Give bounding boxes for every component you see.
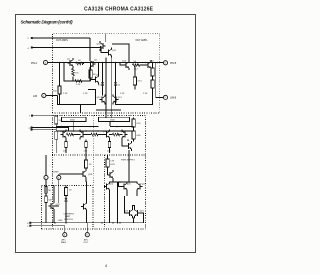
svg-text:4: 4 [105,263,108,268]
node dots rail [59,62,61,64]
terminal PIN A [43,60,47,64]
transistor QC1 [100,41,106,51]
svg-text:2: 2 [29,128,31,130]
node dots band bus [73,130,75,132]
svg-text:LIM: LIM [33,95,37,98]
wire band bus y131 [56,130,131,132]
wire Q5 collector elbow [112,44,129,60]
wire term1 down [45,180,47,192]
terminal LIM left [42,93,46,97]
svg-text:Q11: Q11 [112,50,117,52]
svg-text:OUT: OUT [84,242,89,244]
svg-text:1.2K: 1.2K [63,93,68,95]
svg-text:Q26: Q26 [127,184,132,186]
resistor R9 box [132,119,135,127]
svg-text:1 MF: 1 MF [58,220,64,222]
transistor Q9 [104,130,110,140]
svg-text:5K: 5K [78,60,81,62]
wire Q20 Q21 link [125,196,144,223]
svg-text:2K: 2K [69,190,72,192]
wire Q3 base [90,80,93,82]
wire input 2a [32,128,69,132]
wire Q15 leads [53,186,59,223]
wire R8 bottom [55,124,57,130]
wire R13 top [65,186,67,188]
svg-text:1.2K: 1.2K [143,93,148,95]
svg-text:Q2: Q2 [94,60,98,62]
wire diode branch B [115,63,117,96]
transistor Q3 [93,75,99,85]
svg-text:LIM B: LIM B [170,97,177,100]
svg-text:1: 1 [27,226,29,228]
svg-text:130: 130 [63,151,67,153]
wire input 2b [32,130,56,131]
wire input 7 [33,115,57,117]
svg-text:Q23: Q23 [140,211,145,213]
svg-text:5K: 5K [48,190,51,192]
wire Q3 collector up [98,63,100,75]
diode D2 [114,82,117,85]
node dots BR bus [119,181,121,183]
svg-text:Q29: Q29 [56,204,61,206]
transistor Q17 [104,182,110,192]
resistor RB2 long box [99,117,130,121]
wire inline 2 [86,134,105,136]
svg-text:47.5: 47.5 [138,81,143,83]
wire right loop [116,90,153,105]
resistor R12b box [45,196,48,203]
transistor Q1 [68,58,74,68]
wire left loop [58,90,96,105]
transistor Q2 [90,59,96,69]
wire Q13 base [122,140,126,147]
svg-text:Q3: Q3 [96,75,100,77]
svg-text:170: 170 [75,73,79,75]
transistor Q7 [61,130,67,140]
wire D3 leads [65,196,67,223]
svg-text:PIN A: PIN A [31,62,38,65]
wire R8b bottom [55,139,57,153]
IC dashed boundary: middle box [53,116,146,156]
svg-text:Q22: Q22 [124,211,129,213]
resistor R14 box [106,159,109,167]
transistor Q15 [49,201,55,211]
wire Q18 base [119,182,122,187]
wire R6 chain [152,63,154,98]
terminal bottom-left 2 [57,175,61,179]
svg-text:Q25: Q25 [109,184,114,186]
node dots y110 [105,109,107,111]
resistor band inline zig 3 [113,133,121,136]
wire bottom rail [31,222,144,224]
IC dashed boundary: bottom edge [42,228,146,230]
svg-text:4: 4 [28,48,30,50]
wire Q14 base row [59,173,81,175]
wire Q6 collector [150,60,152,63]
wire R7 leads [90,63,92,82]
wire R14 down [107,167,109,172]
svg-text:8: 8 [27,223,29,225]
resistor R2 vertical [72,69,75,76]
IC dashed boundary: left edge lower run [52,155,54,229]
resistor band ebox 1 [65,142,68,148]
svg-text:4.7K: 4.7K [136,123,141,125]
pin pad bottom 1 [29,222,31,224]
transistor Q21 [135,208,141,218]
resistor R4 box [58,86,61,94]
transistor Q19 [137,182,143,192]
pin pad input 2a [31,127,33,129]
transistor Q16 [81,202,87,212]
transistor QC4 [113,95,119,105]
transistor Q5 [124,60,130,70]
diode D1 [101,82,104,85]
resistor band ebox 3 [108,142,111,148]
resistor R8b box [55,131,58,139]
svg-text:BIAS: BIAS [61,241,66,244]
wire diode branch A [102,63,104,96]
svg-text:1.2K: 1.2K [83,93,88,95]
wire QC cross [101,46,106,53]
svg-text:7: 7 [29,116,31,118]
wire Q19 collector [136,181,138,184]
resistor R6a box [151,68,154,76]
pin pad input 7 [31,115,33,117]
wire Q6 base lead [141,64,146,66]
svg-text:Q28: Q28 [88,174,93,176]
svg-text:Q10: Q10 [97,44,102,46]
pin pad bottom 2 [29,225,31,227]
terminal bottom pin 2 [85,233,89,237]
IC dashed boundary: middle divider [92,116,94,186]
wire center bus B [111,58,113,119]
svg-text:Schematic Diagram (cont'd): Schematic Diagram (cont'd) [21,20,73,25]
svg-text:LIMIT: LIMIT [65,216,71,218]
svg-text:1.2K: 1.2K [76,84,81,86]
wire input 2 [32,46,100,48]
resistor R6b box [151,80,154,88]
transistor Q20 [127,208,133,218]
resistor R3 [75,80,83,83]
transistor Q13 [126,141,132,151]
svg-text:Q12: Q12 [97,97,102,99]
wire R4 top [59,63,61,105]
resistor R8 box [55,116,58,124]
svg-text:SWITCH: SWITCH [64,219,73,221]
wire Q5 base [120,63,124,66]
wire term2 stub [58,174,60,175]
resistor band inline zig 1 [67,133,75,136]
svg-text:COMP: COMP [52,172,59,174]
terminal LIM B right [163,95,167,99]
wire BR emitters [110,192,138,223]
transistor QC3 [100,95,106,105]
wire center bus A [105,58,107,119]
wire RB1 drop [74,122,110,132]
wire band emitter drops [66,140,128,154]
svg-text:5600: 5600 [110,119,116,121]
wire R12 bottom [45,203,47,223]
transistor Q18 [122,182,128,192]
wire bottom pin2 stub [86,223,88,233]
resistor R1 [76,62,84,65]
wire BR bus [110,150,138,182]
pin pad input 1 [31,37,33,39]
wire band emitters [66,140,110,142]
wire inline 1 [75,134,81,136]
resistor RB1 long box [62,117,87,121]
wire loop center drop [80,105,82,114]
wire R14 top [107,155,109,159]
resistor band ebox 2 [85,142,88,148]
transistor Q14 [81,169,87,179]
wire rail y110 [96,109,121,111]
node dots band bus upper [61,126,63,128]
svg-text:10K: 10K [48,200,52,202]
resistor R7 box [89,70,92,78]
svg-text:1.2K: 1.2K [120,93,125,95]
wire term1 up [45,155,47,175]
wire BR extra vertical [117,183,119,223]
transistor Q6 [146,60,152,70]
wire input 1 [32,37,90,39]
svg-text:130: 130 [84,151,88,153]
resistor R13 box [64,188,67,196]
svg-text:5: 5 [28,38,30,40]
wire R5c leads [134,65,136,90]
svg-text:CA3126 CHROMA CA3126E: CA3126 CHROMA CA3126E [84,7,154,13]
node dots bottom rail [54,222,56,224]
transistor QC2 [106,48,112,58]
transistor Q8 [80,130,86,140]
resistor band inline zig 2 [91,133,99,136]
svg-text:4.3K: 4.3K [136,135,141,137]
wire R11 bottom [85,168,87,171]
svg-text:OUT AMPL: OUT AMPL [56,39,69,42]
svg-text:OUT AMPL: OUT AMPL [136,39,149,42]
IC dashed boundary: top box [53,34,160,113]
svg-text:AFC: AFC [84,239,89,242]
svg-text:130: 130 [107,151,111,153]
pin pad input 2b [31,129,33,131]
svg-text:PIN B: PIN B [170,62,177,65]
wire band bus y126.5 [56,126,133,128]
wire Q1 emitter chain [72,68,74,81]
wire bottom second rail [31,226,65,233]
wire inline 3 [109,134,123,136]
wire Q14 collector [85,169,87,171]
svg-text:17K: 17K [110,161,114,163]
svg-text:AFC: AFC [62,239,67,242]
node BR extra [117,222,119,224]
transistor Q10 [122,130,128,140]
svg-text:8.2K: 8.2K [110,164,115,166]
pin pad input 2 [31,47,33,49]
wire band down x86 [85,152,87,160]
svg-text:Q13: Q13 [118,97,123,99]
diode D3 [65,198,68,201]
wire LIM to loop [46,95,58,97]
resistor R12a box [45,187,48,194]
wire Q2 collector drop [89,38,91,59]
svg-text:1K: 1K [89,164,92,166]
wire right vertical link [156,63,164,98]
wire main rail y62.5 [48,62,164,64]
wire term2 down [58,180,60,203]
transistor Q17a [108,170,114,180]
svg-text:CURRENT: CURRENT [64,214,75,216]
wire QC1 collector to top [105,34,107,42]
resistor R11 box [84,160,87,168]
svg-text:500: 500 [53,91,57,93]
wire Q17a leads [108,172,114,182]
resistor R10 box [132,131,135,139]
wire R9R10 link [133,117,135,141]
IC dashed boundary: bottom-right box [105,155,146,229]
wire R12 mid [45,193,47,196]
wire y81 row [64,63,90,82]
wire Q16 collector chain [85,179,88,223]
IC dashed boundary: bottom-left box [42,186,94,230]
page border frame [16,15,196,253]
terminal bottom-left 1 [44,175,48,179]
terminal PIN B right [163,61,167,65]
svg-text:10.2: 10.2 [134,69,139,71]
resistor R5 [133,64,141,67]
svg-text:D2: D2 [118,85,122,87]
resistor R5c box [133,77,136,85]
svg-text:5600: 5600 [70,119,76,121]
svg-text:PWR SUPPLY: PWR SUPPLY [121,160,135,162]
terminal bottom pin 1 [63,233,67,237]
